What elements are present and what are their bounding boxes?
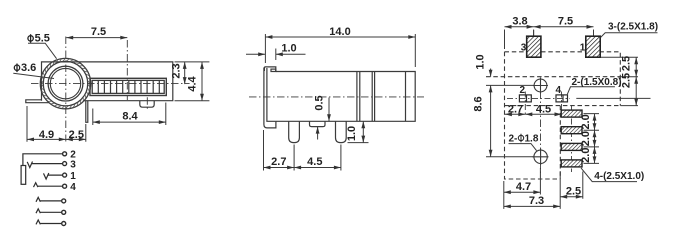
dimensions right view: [486, 27, 658, 209]
ext middle line right: [621, 76, 639, 78]
dashed body outline: [486, 52, 620, 179]
internal line c: [371, 72, 373, 122]
svg-text:1.8: 1.8: [525, 134, 539, 145]
circle outer ring: [40, 58, 90, 108]
texts right view: [473, 16, 659, 208]
tick middle dashed left: [486, 84, 534, 86]
pad column ext lines: [584, 114, 600, 164]
terminal circles: [62, 152, 67, 226]
svg-text:2.7: 2.7: [508, 104, 523, 116]
svg-text:0.5: 0.5: [314, 95, 326, 110]
leader 3-(2.5X1.8): [601, 33, 658, 38]
bottom hole: [533, 149, 549, 166]
leader 2-phi1.8: [509, 144, 537, 151]
svg-text:4.5: 4.5: [307, 156, 322, 168]
svg-text:1.0: 1.0: [475, 54, 487, 69]
dim 2.3: [184, 62, 186, 84]
ext 1.0 right: [348, 142, 369, 144]
svg-text:3: 3: [521, 43, 527, 54]
ext 3/1 pad centers: [534, 30, 594, 36]
wire pin2: [23, 154, 63, 166]
leader phi5.5: [28, 43, 57, 59]
svg-text:3.6: 3.6: [21, 62, 36, 74]
svg-text:4-(2.5X1.0): 4-(2.5X1.0): [594, 171, 644, 182]
dim 4.5 right view: [525, 113, 561, 115]
knurl box inner: [92, 80, 164, 93]
svg-text:7.3: 7.3: [529, 195, 544, 207]
svg-text:2.3: 2.3: [171, 63, 183, 78]
dim 2.5 right top: [635, 57, 637, 76]
outline bottom edge: [505, 105, 621, 107]
pin 1 middle view: [289, 121, 300, 142]
pad 2 small: [519, 95, 531, 102]
leader 2-(1.5X0.8): [567, 87, 615, 95]
leader phi3.6: [13, 73, 54, 78]
contact row5: [36, 197, 62, 201]
svg-text:3-(2.5X1.8): 3-(2.5X1.8): [608, 21, 658, 32]
ext 4.7/7.3 left: [503, 181, 505, 209]
centerline vertical: [65, 37, 67, 142]
pad column C: [561, 143, 582, 150]
mounting tab left: [26, 100, 49, 103]
svg-text:5.5: 5.5: [35, 33, 50, 45]
dim 2.5 right bottom: [635, 77, 637, 106]
svg-text:2.5: 2.5: [621, 56, 633, 71]
dim 7.5 right view: [534, 26, 594, 28]
circle ring2: [43, 61, 87, 105]
tab 0.5 middle view: [310, 121, 326, 126]
pad4 centerline vertical: [561, 92, 563, 117]
svg-text:2-(1.5X0.8): 2-(1.5X0.8): [572, 77, 622, 88]
dim 3.8: [505, 26, 534, 28]
top hole crosshair: [533, 78, 548, 94]
ext 4.7 right: [539, 168, 541, 195]
centerline middle view: [249, 96, 424, 98]
contact pin4: [34, 183, 63, 187]
pad 4 small: [556, 95, 568, 102]
svg-text:4.4: 4.4: [187, 75, 199, 91]
dim 4.9: [27, 138, 66, 140]
flange cap: [264, 67, 275, 72]
dim 2.5 pads: [560, 196, 583, 198]
ext pads24 line right: [576, 97, 650, 99]
dim 2.0 c: [594, 147, 596, 164]
texts middle view: [271, 26, 358, 168]
ext line 7.5 right (centerline through body): [126, 40, 128, 100]
dim 1.0 arrows: [246, 53, 265, 55]
ext bottom hole left: [486, 156, 534, 158]
schematic pin numbers: [70, 149, 76, 193]
label phi3.6: [14, 64, 19, 73]
centerlines right view: [507, 78, 572, 175]
dim 2.7 right view: [505, 113, 525, 115]
centerline horizontal: [31, 83, 190, 85]
internal line b: [359, 72, 361, 122]
contact row7: [36, 220, 62, 224]
pad column centerline vertical: [571, 106, 573, 172]
svg-text:4.7: 4.7: [516, 181, 531, 193]
ext lines 2.7/4.5: [264, 130, 341, 171]
pad column A: [561, 110, 582, 117]
svg-text:1: 1: [70, 171, 76, 182]
circle hole inner: [50, 68, 80, 98]
svg-text:1: 1: [580, 43, 586, 54]
pin 2 middle view: [336, 121, 347, 142]
svg-text:4: 4: [556, 85, 562, 96]
svg-text:1.0: 1.0: [346, 126, 358, 141]
svg-text:1.0: 1.0: [281, 43, 296, 55]
outline rect top: [505, 52, 621, 179]
contact pin3: [27, 162, 63, 168]
svg-text:8.6: 8.6: [473, 96, 485, 111]
contact pin1: [44, 173, 63, 179]
dimensions middle view: [246, 34, 415, 171]
pad column B: [561, 127, 582, 134]
body outline middle view: [276, 72, 415, 122]
dim 7.5 line: [66, 37, 127, 39]
svg-text:2.0: 2.0: [580, 131, 592, 146]
svg-text:4.9: 4.9: [39, 129, 54, 141]
ext 14.0 left: [264, 34, 266, 63]
body outline left view: [42, 62, 173, 101]
middle dashed line: [486, 76, 620, 78]
sleeve rectangle: [21, 166, 26, 185]
centerlines left view: [31, 37, 190, 142]
svg-text:2.5: 2.5: [621, 73, 633, 88]
ext 1.0: [275, 49, 277, 61]
svg-text:8.4: 8.4: [122, 110, 138, 122]
knurl box outer: [90, 78, 166, 95]
flange strip: [264, 68, 276, 128]
circle hole outer: [48, 66, 83, 101]
svg-text:7.5: 7.5: [91, 26, 106, 38]
knurl dividers: [98, 80, 159, 93]
svg-text:2: 2: [520, 85, 526, 96]
pin below body: [86, 101, 88, 123]
dim 0.5 arrows: [328, 98, 330, 122]
internal line e: [405, 72, 407, 122]
ext lines 4.9/2.5: [27, 106, 86, 142]
notch box 1.0: [271, 69, 276, 71]
dim 1.0 right (pin): [362, 121, 364, 142]
left dim column: 1.0 arrows: [490, 69, 492, 77]
pads 2/4 centerline horizontal: [507, 97, 570, 99]
svg-text:2.5: 2.5: [566, 185, 581, 197]
svg-text:2.0: 2.0: [580, 148, 592, 163]
svg-text:2.0: 2.0: [580, 114, 592, 129]
ext lines 8.4: [93, 103, 166, 126]
svg-text:14.0: 14.0: [329, 26, 350, 38]
ext pads bottom right: [601, 56, 638, 58]
top hole: [533, 78, 548, 94]
contact row6: [36, 209, 62, 213]
dim 2.0 a: [594, 114, 596, 131]
pad 3: [527, 36, 541, 57]
barrel circles: [40, 58, 90, 108]
dim 4.7: [504, 191, 541, 193]
svg-text:3: 3: [70, 159, 76, 170]
dim 4.5 middle: [294, 167, 341, 169]
bottom hole crosshair: [533, 149, 549, 166]
pad column D: [561, 160, 582, 167]
label phi5.5: [28, 34, 33, 43]
pad2 centerline vertical: [524, 92, 526, 117]
svg-text:2.5: 2.5: [69, 129, 84, 141]
knurl ticks on ring: [40, 58, 90, 108]
internal line a: [356, 72, 358, 122]
internal line d: [374, 72, 376, 122]
svg-text:2.7: 2.7: [271, 156, 286, 168]
ext 2.5 pads: [560, 172, 583, 209]
dim 2.5: [66, 138, 86, 140]
svg-text:4.5: 4.5: [536, 104, 551, 116]
dim 14.0: [265, 36, 415, 38]
svg-text:7.5: 7.5: [558, 16, 573, 28]
leader 4-(2.5X1.0): [581, 168, 637, 182]
dim 8.6: [490, 85, 492, 156]
ext lines 2.3/4.4: [175, 62, 210, 101]
centerline small tab: [146, 97, 148, 109]
svg-text:2-: 2-: [509, 134, 518, 145]
texts left view: [14, 26, 198, 141]
dim 8.4: [93, 121, 166, 123]
ext lines 3.8/7.5: [505, 30, 594, 50]
svg-text:3.8: 3.8: [512, 16, 527, 28]
ext outline bottom right: [621, 105, 639, 107]
hole centerline vertical: [540, 78, 542, 175]
dim 7.3: [504, 205, 560, 207]
dim 2.0 b: [594, 130, 596, 147]
dim 4.4: [201, 62, 203, 101]
pad 1: [586, 36, 600, 57]
dimensions left view: [13, 38, 209, 142]
dim 2.7 middle: [264, 167, 295, 169]
svg-text:4: 4: [70, 182, 76, 193]
small tab below body: [140, 101, 154, 108]
ext 14.0 right: [414, 34, 416, 67]
